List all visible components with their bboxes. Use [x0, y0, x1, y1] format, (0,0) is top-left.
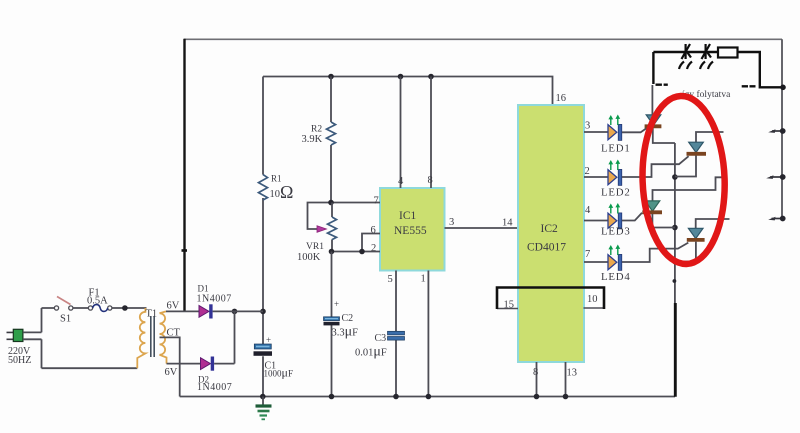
junction node (331,202.5): [328, 200, 334, 206]
wire: CT tap down to ground bus: [160, 337, 180, 396]
junction node (396,396.5): [393, 394, 399, 400]
svg-text:7: 7: [585, 249, 590, 260]
svg-text:3.9K: 3.9K: [302, 134, 323, 145]
wire: thick black riser from 6V tap to top bus: [183, 39, 185, 311]
wire: R1/C1 column: [262, 77, 264, 397]
diode D2 1N4007: [201, 358, 211, 370]
svg-text:1N4007: 1N4007: [197, 382, 232, 393]
svg-text:1000μF: 1000μF: [264, 366, 293, 380]
svg-text:6V: 6V: [165, 367, 178, 378]
potentiometer VR1: [331, 203, 333, 252]
wire: CD4017 output 2 to LED2: [584, 176, 608, 178]
junction node (362,251.5): [359, 249, 365, 255]
svg-text:10: 10: [587, 294, 598, 305]
svg-text:2: 2: [585, 166, 590, 177]
transformer T1 core: [151, 316, 154, 357]
wire: pin 8 riser: [430, 77, 432, 189]
svg-text:CD4017: CD4017: [527, 242, 566, 254]
svg-text:14: 14: [502, 218, 513, 229]
svg-text:LED4: LED4: [601, 271, 631, 283]
LED1: [601, 115, 631, 155]
LED4: [601, 245, 631, 284]
fuse F1: [88, 306, 92, 310]
junction node (124.9,308): [122, 305, 128, 311]
transformer T1 primary winding: [137, 308, 145, 368]
junction node (428.4,396.5): [426, 394, 432, 400]
wire: right-side bus vertical: [781, 39, 783, 219]
capacitor C1: [254, 344, 271, 349]
wire: pin 3 to pin 14: [445, 227, 519, 229]
svg-text:3: 3: [585, 121, 590, 132]
capacitor C3: [388, 331, 405, 335]
wire: CD4017 output 3 to LED1: [584, 131, 608, 133]
transformer T1 secondary winding: [160, 313, 167, 363]
wire: pin 8 column: [536, 362, 538, 397]
junction node (674.9,261.5): [672, 259, 678, 265]
plug 220V: [7, 332, 14, 339]
SCR Q1: [645, 85, 675, 143]
svg-text:2: 2: [371, 243, 376, 254]
svg-text:7: 7: [374, 196, 379, 207]
wire: top supply bus horizontal: [184, 38, 782, 40]
node: bus2 junction at R2 column: [328, 74, 334, 80]
junction node (262.8,396.5): [260, 394, 266, 400]
svg-text:1N4007: 1N4007: [197, 294, 232, 305]
lamp LED b (hand-drawn): [700, 44, 713, 69]
wire: 6V top tap to D1: [166, 310, 199, 312]
SCR Q3: [642, 177, 724, 227]
svg-text:S1: S1: [60, 314, 71, 325]
svg-text:4: 4: [398, 176, 404, 187]
svg-text:VR1: VR1: [306, 242, 324, 252]
svg-text:8: 8: [428, 175, 433, 186]
svg-text:3.3μF: 3.3μF: [332, 325, 359, 340]
IC op IC1 NE555 box: [380, 188, 445, 271]
wire: pin 1 column: [427, 271, 429, 397]
lamp resistor (hand-drawn): [718, 48, 738, 58]
wire: 6V bottom tap to D2: [167, 363, 201, 365]
svg-text:0.5A: 0.5A: [87, 296, 108, 307]
wire: black bracket pin15-pin10: [497, 288, 604, 310]
wire: pin 5 column: [395, 271, 397, 397]
ground: [262, 397, 264, 405]
svg-text:8: 8: [533, 367, 538, 378]
wire: pin 13 column: [565, 362, 567, 397]
hand-drawn lamp string circuit: [653, 52, 783, 87]
svg-text:6V: 6V: [167, 301, 180, 312]
junction node (536.5,396.5): [534, 394, 540, 400]
wire: LED3 to SCR3 gate: [622, 213, 642, 221]
svg-text:+: +: [266, 335, 271, 345]
svg-text:IC1: IC1: [399, 210, 417, 222]
capacitor C2: [331, 252, 333, 397]
wire: bus continuation stub 3: [768, 216, 785, 222]
wire: rectifier node to R1/C1 column: [235, 310, 264, 312]
svg-text:13: 13: [567, 368, 578, 379]
wire: bus continuation stub 2: [766, 174, 785, 180]
svg-text:IC2: IC2: [541, 223, 559, 235]
junction node (263,311.4): [260, 309, 266, 315]
svg-text:C3: C3: [375, 333, 387, 344]
lamp LED a (hand-drawn): [679, 44, 692, 69]
svg-text:+: +: [334, 299, 339, 309]
svg-text:C2: C2: [342, 313, 354, 324]
diode D1 1N4007: [199, 306, 209, 318]
svg-text:LED3: LED3: [601, 226, 631, 238]
junction node (331.5,396.5): [329, 394, 335, 400]
svg-text:50HZ: 50HZ: [8, 355, 31, 366]
svg-text:4: 4: [585, 205, 591, 216]
LED2: [601, 160, 631, 199]
wire: pin 4 riser: [400, 77, 402, 189]
svg-text:5: 5: [388, 274, 393, 285]
svg-text:0.01μF: 0.01μF: [355, 345, 387, 360]
wire: second bus (Vcc) y=76.5: [263, 77, 553, 106]
wire: bus continuation stub 1: [768, 128, 785, 134]
svg-text:10Ω: 10Ω: [270, 182, 294, 202]
SCR Q4: [675, 219, 730, 262]
node: bus2 junction pin8: [428, 74, 434, 80]
LED3: [601, 203, 631, 238]
svg-text:D1: D1: [198, 284, 209, 294]
wire: bottom ground bus: [180, 396, 675, 398]
wire: pin 7: [308, 203, 381, 230]
junction node (674.9,177): [672, 174, 678, 180]
wire: tick mark on black riser: [182, 249, 188, 252]
wire: LED2 to SCR2 gate: [622, 156, 689, 177]
SCR Q2: [675, 132, 724, 177]
svg-text:15: 15: [504, 300, 515, 311]
resistor R2: [330, 77, 332, 203]
svg-text:1: 1: [421, 274, 426, 285]
svg-text:6: 6: [371, 225, 376, 236]
node: lamp circuit to right bus: [780, 85, 786, 91]
junction node (234.5,311.4): [232, 309, 238, 315]
wire: pin 10 stub: [584, 307, 605, 309]
switch S1: [42, 307, 89, 309]
junction node (564.7,396.5): [563, 394, 569, 400]
junction node (331.5,251.5): [329, 249, 335, 255]
wire: pin 2: [332, 251, 380, 253]
svg-text:T1: T1: [146, 309, 158, 320]
junction node (674.9,227.5): [672, 225, 678, 231]
IC counter IC2 CD4017 box: [518, 105, 584, 362]
svg-text:NE555: NE555: [394, 225, 427, 237]
svg-text:LED1: LED1: [601, 143, 631, 155]
resistor R1: [259, 175, 268, 200]
node: bus2 junction pin4: [398, 74, 404, 80]
wire: CD4017 output 4 to LED3: [584, 220, 608, 222]
wire: CD4017 output 7 to LED4: [584, 261, 608, 263]
annotation: red ellipse: [640, 95, 728, 266]
svg-text:100K: 100K: [297, 252, 321, 263]
svg-text:R2: R2: [311, 125, 322, 135]
wire: SCR common cathode line: [674, 143, 676, 304]
svg-text:LED2: LED2: [601, 187, 631, 199]
wire: LED1 to SCR1 gate: [622, 128, 647, 133]
svg-text:16: 16: [556, 93, 567, 104]
wire: pin 15 stub: [497, 308, 518, 310]
wire: pin 6: [362, 234, 380, 252]
wire: LED4 to SCR4 gate: [622, 243, 688, 262]
svg-text:3: 3: [449, 217, 454, 228]
